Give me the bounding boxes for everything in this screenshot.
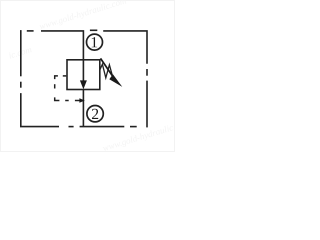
enclosure right edge dash	[146, 69, 148, 76]
pilot line dash at envelope	[63, 75, 67, 77]
adjustment arrow head	[109, 74, 122, 87]
enclosure bottom edge dash b	[130, 126, 137, 128]
port 2 label	[92, 109, 98, 119]
adjustment arrow shaft	[101, 58, 113, 76]
pilot line left dash	[54, 84, 56, 88]
wire: port 1 line (top edge run, corner, down to valve)	[41, 31, 83, 60]
enclosure left edge upper segment	[20, 30, 22, 76]
wire: valve flow path through square	[82, 60, 84, 82]
valve envelope (square)	[67, 60, 100, 90]
watermark	[2, 0, 191, 172]
spring (right of envelope)	[100, 64, 113, 78]
wire: valve to port 2 / bottom boundary	[82, 90, 84, 127]
enclosure right edge lower segment	[146, 81, 148, 128]
enclosure top edge dash a	[27, 30, 34, 32]
pilot line bottom dash b	[75, 100, 80, 102]
canvas frame	[1, 1, 175, 152]
pilot line bottom dash a	[65, 100, 69, 102]
pilot arrow head at main line	[79, 98, 84, 102]
enclosure top edge dash b (over port 1)	[90, 29, 97, 31]
pilot line bottom-left corner	[55, 97, 60, 100]
pilot line top-left corner	[55, 76, 58, 79]
enclosure top edge long segment + right edge upper segment	[103, 31, 147, 64]
enclosure left edge lower segment + bottom edge left segment	[21, 93, 59, 127]
enclosure bottom edge dash a	[69, 126, 74, 128]
port 1 label	[92, 37, 97, 47]
port 1 circle	[87, 34, 103, 50]
enclosure left edge dash	[20, 82, 22, 88]
flow arrow (poppet, normally closed, points down)	[80, 80, 87, 89]
enclosure bottom edge segment under port 2	[80, 126, 125, 128]
port 2 circle	[87, 106, 103, 122]
